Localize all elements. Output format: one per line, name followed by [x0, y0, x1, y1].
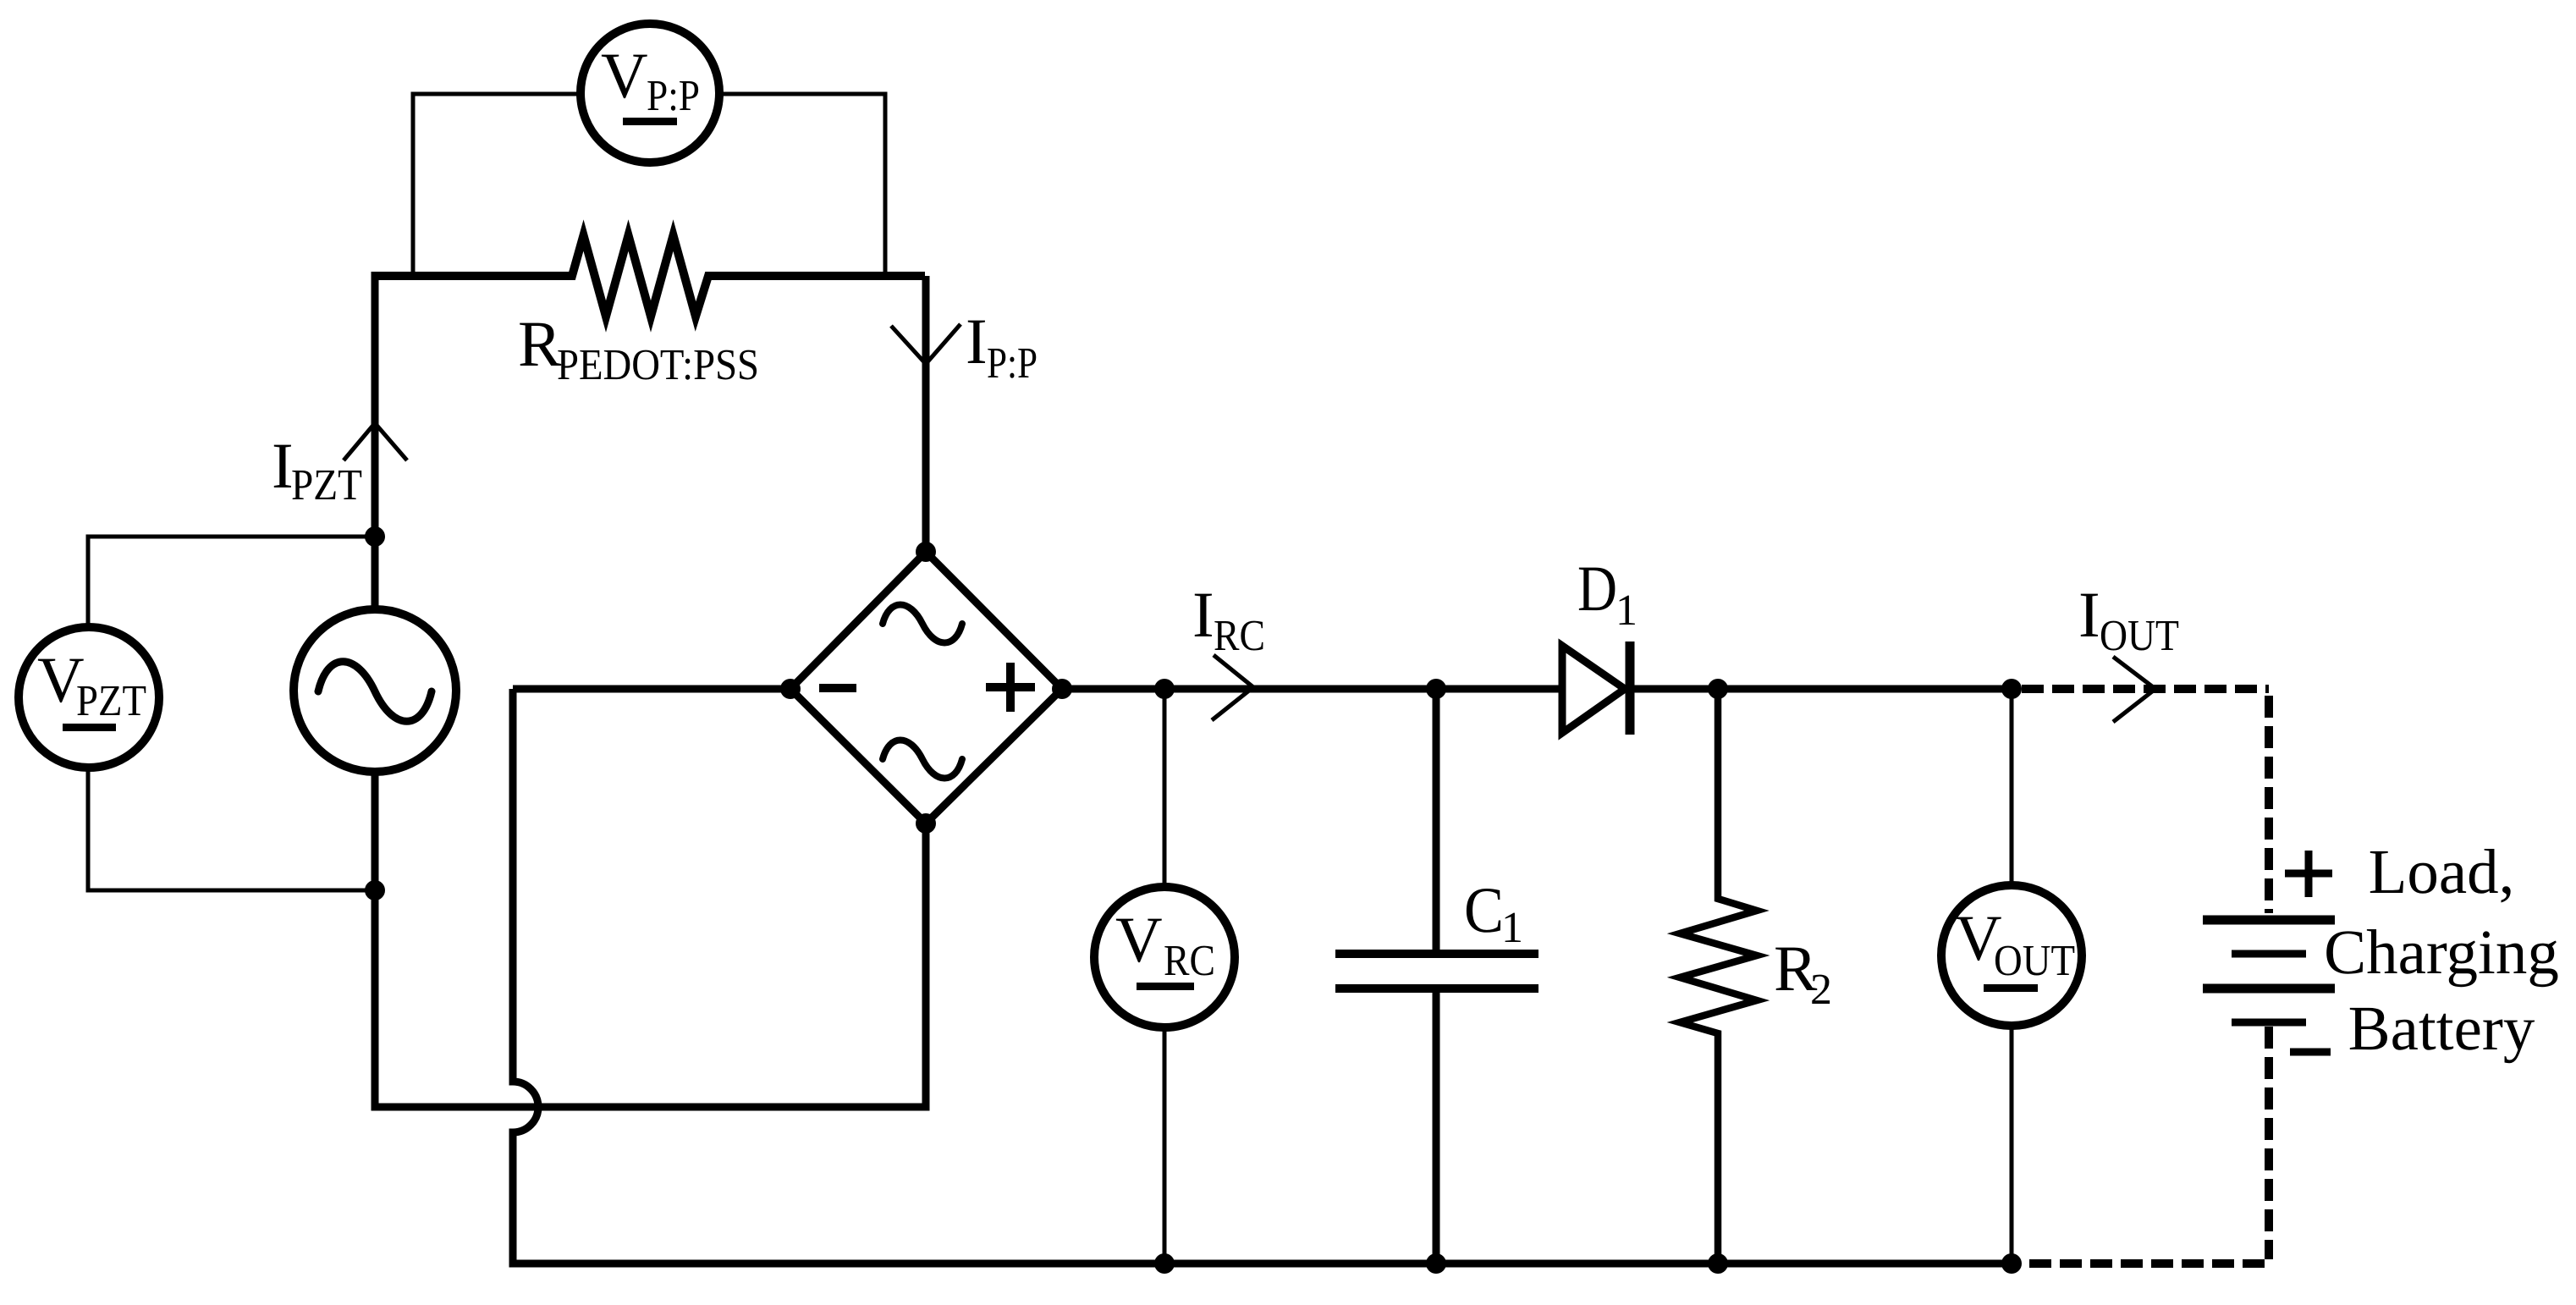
svg-text:Charging: Charging — [2324, 917, 2559, 988]
wire — [2010, 689, 2014, 1264]
AC source — [294, 609, 456, 772]
capacitor C1 — [1335, 689, 1538, 1264]
label RPEDOT:PSS — [518, 307, 759, 389]
wire — [375, 770, 926, 1107]
junction — [365, 526, 385, 547]
voltmeter VPZT — [19, 627, 159, 768]
wire dashed — [2022, 685, 2269, 693]
wire dashed — [2265, 696, 2273, 913]
junction — [2001, 679, 2022, 699]
current arrow IRC — [1212, 655, 1253, 720]
label IPZT — [272, 429, 362, 509]
wire — [1163, 689, 1167, 1264]
resistor R2 — [1680, 689, 1757, 1264]
diode D1 — [1562, 641, 1630, 735]
resistor RPEDOT:PSS — [375, 235, 925, 317]
junction — [1426, 679, 1446, 699]
battery plus terminal — [2285, 851, 2332, 897]
wire hop over — [513, 689, 2012, 1264]
battery minus terminal — [2290, 1049, 2331, 1056]
voltmeter VOUT — [1941, 885, 2082, 1026]
wire dashed — [2022, 1259, 2265, 1268]
svg-text:Load,: Load, — [2369, 837, 2515, 907]
junction — [1708, 1253, 1728, 1274]
wire — [1062, 686, 2012, 693]
label IOUT — [2078, 578, 2179, 660]
junction — [2001, 1253, 2022, 1274]
voltmeter VRC — [1094, 887, 1235, 1027]
wire — [88, 537, 375, 890]
label R2 — [1774, 932, 1832, 1014]
label IP:P — [966, 305, 1038, 388]
wire — [922, 276, 930, 552]
wire dashed — [2265, 1027, 2273, 1259]
current arrow IOUT — [2113, 657, 2155, 722]
voltmeter VP:P — [581, 24, 719, 162]
junction — [365, 880, 385, 900]
junction — [1154, 679, 1175, 699]
junction — [1154, 1253, 1175, 1274]
wire — [372, 272, 379, 608]
wire — [513, 686, 790, 693]
wire — [413, 94, 885, 276]
bridge rectifier — [780, 542, 1072, 834]
junction — [1708, 679, 1728, 699]
current arrow IPZT — [344, 423, 407, 460]
svg-text:Battery: Battery — [2348, 994, 2535, 1064]
junction — [1426, 1253, 1446, 1274]
current arrow IP:P — [891, 324, 960, 364]
label IRC — [1192, 578, 1265, 660]
label C1 — [1464, 873, 1523, 952]
label Load Charging Battery — [2324, 837, 2559, 1064]
battery — [2203, 920, 2335, 1022]
label D1 — [1577, 552, 1638, 635]
